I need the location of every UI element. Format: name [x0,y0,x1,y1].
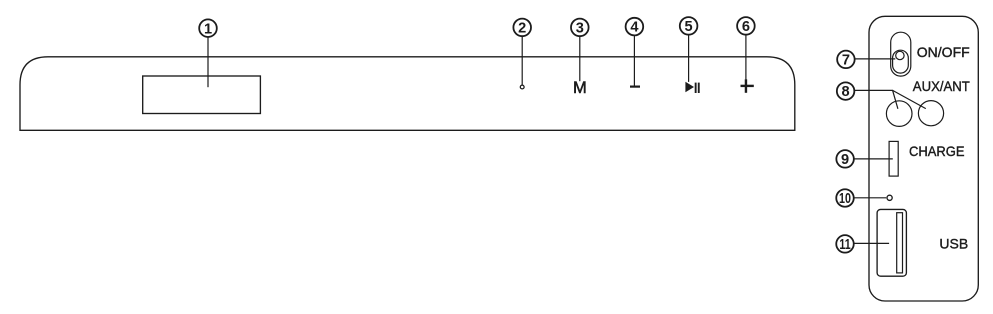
svg-text:M: M [573,79,587,97]
svg-text:2: 2 [518,21,526,37]
svg-text:5: 5 [685,19,693,35]
svg-text:8: 8 [842,84,850,100]
svg-text:11: 11 [839,237,850,253]
svg-text:AUX/ANT: AUX/ANT [913,78,970,94]
svg-text:9: 9 [841,152,849,168]
svg-text:1: 1 [204,21,212,37]
svg-text:ON/OFF: ON/OFF [917,44,970,60]
svg-text:USB: USB [939,235,968,251]
svg-text:10: 10 [839,191,851,207]
svg-text:7: 7 [842,53,850,69]
svg-text:4: 4 [630,20,639,36]
svg-text:3: 3 [576,21,584,37]
svg-text:6: 6 [742,19,750,35]
svg-text:CHARGE: CHARGE [909,143,965,159]
